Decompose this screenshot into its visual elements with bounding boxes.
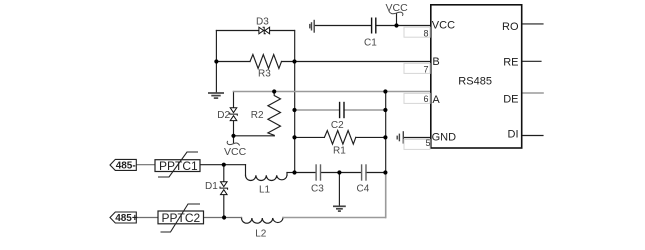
svg-text:7: 7 [423, 65, 428, 75]
svg-text:485-: 485- [116, 161, 136, 172]
svg-text:B: B [432, 56, 439, 68]
svg-text:RO: RO [502, 21, 519, 33]
svg-text:6: 6 [423, 94, 428, 104]
svg-text:L2: L2 [255, 229, 267, 240]
svg-text:L1: L1 [259, 185, 271, 196]
svg-text:VCC: VCC [386, 2, 409, 14]
svg-text:D2: D2 [217, 110, 230, 121]
svg-text:VCC: VCC [432, 20, 455, 32]
svg-text:C3: C3 [311, 183, 324, 194]
svg-text:DI: DI [508, 129, 519, 141]
svg-text:DE: DE [503, 94, 518, 106]
svg-text:RE: RE [503, 57, 518, 69]
svg-text:C1: C1 [364, 38, 377, 49]
svg-text:C4: C4 [357, 183, 370, 194]
svg-text:R1: R1 [333, 146, 346, 157]
svg-text:PPTC1: PPTC1 [159, 159, 198, 173]
svg-text:PPTC2: PPTC2 [162, 211, 201, 225]
svg-text:VCC: VCC [224, 146, 247, 158]
svg-text:GND: GND [432, 132, 457, 144]
svg-text:D1: D1 [205, 181, 218, 192]
svg-text:R2: R2 [251, 110, 264, 121]
svg-text:D3: D3 [256, 16, 269, 27]
svg-text:R3: R3 [258, 69, 271, 80]
svg-text:8: 8 [423, 28, 428, 38]
svg-text:A: A [432, 94, 440, 106]
svg-text:C2: C2 [331, 120, 344, 131]
svg-text:485+: 485+ [115, 213, 138, 224]
svg-text:5: 5 [425, 138, 430, 148]
svg-text:RS485: RS485 [458, 76, 492, 88]
